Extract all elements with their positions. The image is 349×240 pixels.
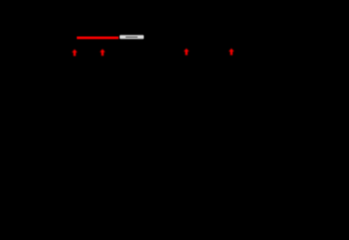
value label text <box>126 36 138 38</box>
current arrow 2 <box>100 49 105 56</box>
value label box <box>120 35 144 39</box>
current arrow 4 <box>229 48 234 55</box>
current arrow 1 <box>72 49 77 56</box>
wire <box>77 37 119 40</box>
current arrow 3 <box>184 48 189 55</box>
